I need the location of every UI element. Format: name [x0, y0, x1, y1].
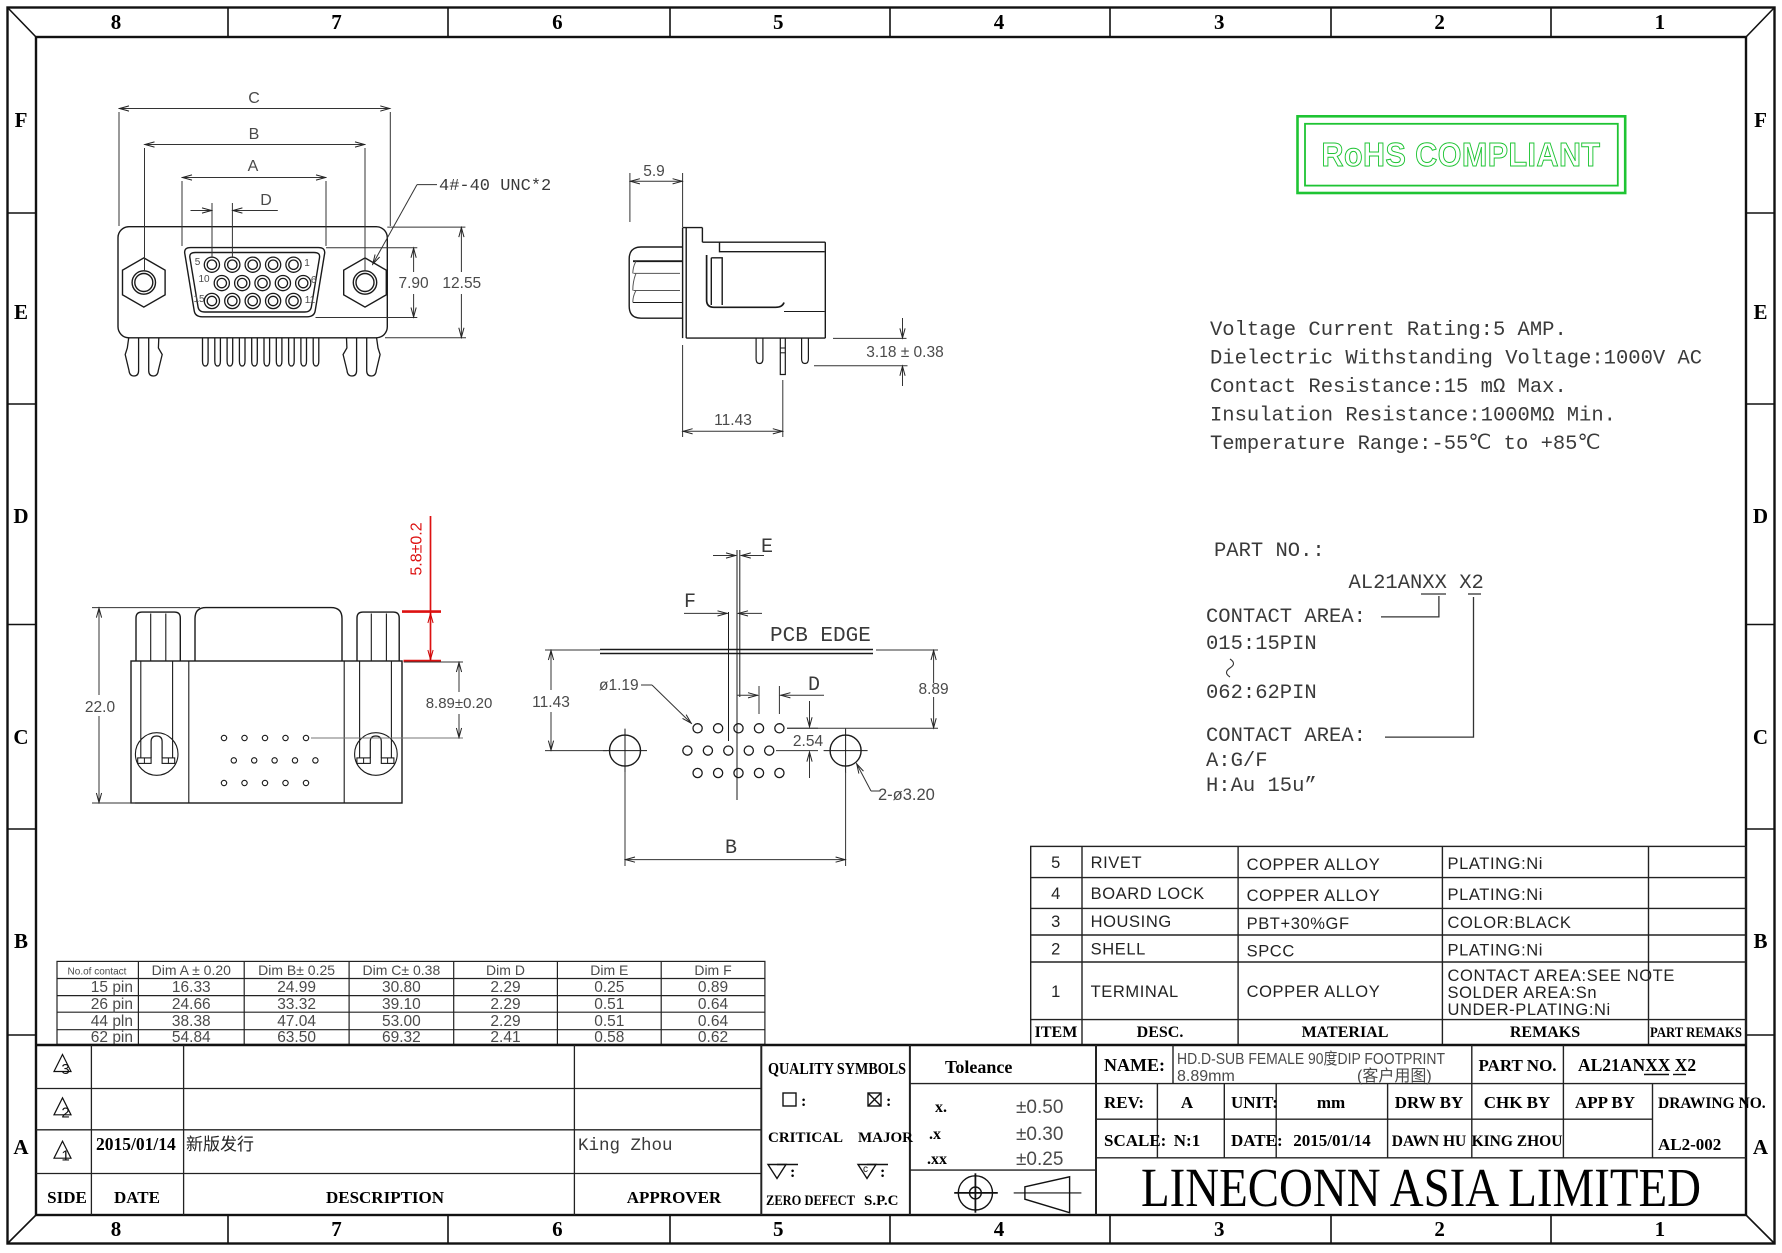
svg-text:Dielectric Withstanding Voltag: Dielectric Withstanding Voltage:1000V AC: [1210, 348, 1702, 371]
svg-text:0.89: 0.89: [698, 979, 728, 996]
svg-text:TERMINAL: TERMINAL: [1091, 983, 1179, 1001]
svg-text:MATERIAL: MATERIAL: [1302, 1024, 1389, 1041]
svg-text:53.00: 53.00: [382, 1013, 421, 1030]
svg-text:4: 4: [1051, 885, 1061, 903]
svg-text:CHK BY: CHK BY: [1484, 1093, 1551, 1112]
dimension C: [119, 109, 390, 227]
svg-text:F: F: [684, 591, 696, 614]
svg-text:RIVET: RIVET: [1091, 854, 1143, 872]
svg-text:A: A: [1753, 1135, 1769, 1159]
svg-text:5: 5: [773, 1217, 784, 1241]
svg-text:KING ZHOU: KING ZHOU: [1472, 1133, 1563, 1150]
svg-text:8.89mm: 8.89mm: [1177, 1068, 1235, 1085]
svg-text:SIDE: SIDE: [47, 1188, 87, 1207]
dimension 3.18 +/- 0.38: [814, 318, 908, 386]
svg-text:S.P.C: S.P.C: [864, 1193, 898, 1209]
right hex nut: [344, 258, 387, 307]
svg-text:10: 10: [198, 274, 210, 285]
svg-text:AL21ANXX X2: AL21ANXX X2: [1578, 1055, 1696, 1075]
svg-text:47.04: 47.04: [277, 1013, 316, 1030]
svg-text:3: 3: [1051, 913, 1061, 931]
svg-text:PLATING:Ni: PLATING:Ni: [1448, 942, 1544, 960]
svg-text:5.8±0.2: 5.8±0.2: [409, 522, 426, 575]
svg-text:7: 7: [331, 10, 342, 34]
leader dia 1.19: [641, 685, 692, 724]
svg-text:Dim B± 0.25: Dim B± 0.25: [258, 962, 335, 978]
svg-text:(客户用图): (客户用图): [1357, 1067, 1432, 1085]
svg-text:D: D: [13, 504, 28, 528]
svg-text:6: 6: [552, 10, 563, 34]
svg-text:3.18 ± 0.38: 3.18 ± 0.38: [866, 344, 943, 361]
svg-text:SOLDER AREA:Sn: SOLDER AREA:Sn: [1448, 984, 1598, 1002]
svg-text:39.10: 39.10: [382, 996, 421, 1013]
svg-text:PLATING:Ni: PLATING:Ni: [1448, 855, 1544, 873]
svg-text:A: A: [1181, 1093, 1194, 1112]
svg-text:CRITICAL: CRITICAL: [768, 1130, 843, 1146]
svg-text:BOARD LOCK: BOARD LOCK: [1091, 885, 1205, 903]
svg-text:Temperature Range:-55℃ to +85℃: Temperature Range:-55℃ to +85℃: [1210, 433, 1601, 456]
svg-text:2: 2: [61, 1104, 69, 1121]
svg-text:15: 15: [193, 294, 205, 305]
svg-text:54.84: 54.84: [172, 1029, 211, 1046]
svg-text:C: C: [13, 725, 28, 749]
rev / scale rows: [1104, 1093, 1766, 1154]
svg-text:RoHS COMPLIANT: RoHS COMPLIANT: [1322, 136, 1601, 173]
svg-text:MAJOR: MAJOR: [858, 1130, 913, 1146]
svg-text:D: D: [1753, 504, 1768, 528]
svg-text:Dim D: Dim D: [486, 962, 525, 978]
svg-text:3: 3: [1214, 10, 1225, 34]
svg-text:DATE:: DATE:: [1231, 1131, 1283, 1150]
svg-text:.x: .x: [929, 1126, 941, 1143]
dimension A: [182, 178, 326, 247]
svg-text:0.58: 0.58: [594, 1029, 624, 1046]
svg-text:2-ø3.20: 2-ø3.20: [878, 786, 935, 804]
dimension 22.0: [92, 608, 200, 803]
svg-text:11.43: 11.43: [532, 694, 570, 711]
svg-text:REMAKS: REMAKS: [1510, 1024, 1580, 1041]
svg-text:4: 4: [994, 10, 1005, 34]
svg-text:B: B: [725, 837, 737, 860]
body outline top view: [131, 661, 402, 803]
svg-text:6: 6: [552, 1217, 563, 1241]
dimension 2.54: [776, 701, 818, 778]
svg-text:5.9: 5.9: [643, 163, 665, 180]
svg-text:UNDER-PLATING:Ni: UNDER-PLATING:Ni: [1448, 1001, 1611, 1019]
svg-text:22.0: 22.0: [85, 699, 116, 716]
svg-text:8: 8: [111, 10, 122, 34]
svg-text:0.64: 0.64: [698, 996, 729, 1013]
right mounting hole: [830, 735, 861, 766]
svg-text:7.90: 7.90: [399, 275, 430, 292]
svg-text:E: E: [761, 536, 773, 559]
svg-text:H:Au 15u”: H:Au 15u”: [1206, 775, 1317, 798]
svg-text:DESC.: DESC.: [1137, 1024, 1184, 1041]
svg-text:2.29: 2.29: [490, 996, 520, 1013]
15 contacts front: [204, 257, 311, 309]
shell from top: [195, 608, 342, 661]
dimension F: [684, 612, 762, 614]
svg-text:24.66: 24.66: [172, 996, 211, 1013]
svg-text:DAWN HU: DAWN HU: [1392, 1133, 1467, 1150]
leader 2-dia 3.20: [857, 764, 881, 792]
svg-text:Dim F: Dim F: [694, 962, 731, 978]
flange plate: [682, 228, 684, 339]
svg-text:QUALITY SYMBOLS: QUALITY SYMBOLS: [768, 1059, 906, 1078]
svg-text:SHELL: SHELL: [1091, 941, 1146, 959]
svg-text:E: E: [14, 300, 28, 324]
svg-text:3: 3: [61, 1061, 69, 1078]
svg-text:DATE: DATE: [114, 1188, 160, 1207]
svg-text:0.64: 0.64: [698, 1013, 729, 1030]
svg-text:2: 2: [1434, 1217, 1445, 1241]
body outline: [702, 241, 825, 243]
svg-text:N:1: N:1: [1174, 1131, 1200, 1150]
svg-text:Toleance: Toleance: [945, 1057, 1012, 1077]
svg-text:Dim C± 0.38: Dim C± 0.38: [363, 962, 441, 978]
svg-text:E: E: [1753, 300, 1767, 324]
svg-text:0.62: 0.62: [698, 1029, 728, 1046]
svg-text:1: 1: [1655, 1217, 1666, 1241]
mating face (jack screw side): [629, 247, 682, 318]
svg-text:5: 5: [773, 10, 784, 34]
revision triangles: [54, 1055, 71, 1159]
pins: [756, 338, 763, 363]
svg-text:PLATING:Ni: PLATING:Ni: [1448, 886, 1544, 904]
svg-text:62 pin: 62 pin: [91, 1029, 133, 1046]
svg-text:0.51: 0.51: [594, 996, 624, 1013]
svg-text:PART REMAKS: PART REMAKS: [1650, 1025, 1742, 1041]
inner shell step: [720, 242, 825, 252]
svg-text:1: 1: [1655, 10, 1666, 34]
svg-text:AL21ANXX X2: AL21ANXX X2: [1349, 572, 1484, 595]
svg-text:REV:: REV:: [1104, 1093, 1144, 1112]
svg-text:F: F: [15, 108, 28, 132]
svg-text:062:62PIN: 062:62PIN: [1206, 682, 1317, 705]
svg-text:8.89±0.20: 8.89±0.20: [426, 695, 493, 712]
D-shell outer: [185, 248, 325, 317]
inner L-shaped housing line: [707, 255, 784, 307]
svg-text:2.41: 2.41: [490, 1029, 520, 1046]
svg-text:3: 3: [1214, 1217, 1225, 1241]
svg-text:38.38: 38.38: [172, 1013, 211, 1030]
right board lock pair: [343, 338, 357, 376]
svg-text::: :: [880, 1164, 885, 1181]
svg-text:6: 6: [311, 275, 317, 286]
svg-text:CONTACT AREA:SEE NOTE: CONTACT AREA:SEE NOTE: [1448, 967, 1675, 985]
dimension 8.89 (footprint): [787, 650, 938, 728]
svg-text:30.80: 30.80: [382, 979, 421, 996]
svg-text:ITEM: ITEM: [1035, 1024, 1078, 1041]
svg-text:DESCRIPTION: DESCRIPTION: [326, 1188, 445, 1207]
svg-text:CONTACT AREA:: CONTACT AREA:: [1206, 725, 1366, 748]
svg-text:8: 8: [111, 1217, 122, 1241]
F reference line: [728, 612, 730, 741]
third angle projection symbol: [954, 1173, 1081, 1212]
svg-text:44 pln: 44 pln: [91, 1013, 133, 1030]
svg-text:UNIT:: UNIT:: [1231, 1093, 1278, 1112]
svg-text:B: B: [14, 929, 28, 953]
svg-text:0.25: 0.25: [594, 979, 624, 996]
pin number labels: [193, 257, 316, 306]
svg-text:24.99: 24.99: [277, 979, 316, 996]
svg-text:AL2-002: AL2-002: [1658, 1135, 1721, 1154]
svg-text:ø1.19: ø1.19: [599, 677, 639, 694]
svg-text:No.of contact: No.of contact: [68, 967, 127, 978]
svg-text:SCALE:: SCALE:: [1104, 1131, 1166, 1150]
dimension 11.43: [683, 345, 783, 437]
svg-text:APPROVER: APPROVER: [627, 1188, 722, 1207]
PCB edge double line: [600, 649, 873, 651]
svg-text::: :: [801, 1093, 806, 1110]
svg-text:SPCC: SPCC: [1247, 943, 1295, 961]
svg-text:63.50: 63.50: [277, 1029, 316, 1046]
svg-text:HD.D-SUB FEMALE 90度DIP FOOTPRI: HD.D-SUB FEMALE 90度DIP FOOTPRINT: [1177, 1050, 1445, 1068]
svg-text:A:G/F: A:G/F: [1206, 750, 1268, 773]
dimension B (footprint): [625, 772, 846, 866]
svg-text:King Zhou: King Zhou: [578, 1136, 673, 1156]
svg-text:A: A: [248, 158, 259, 175]
svg-text:5: 5: [195, 257, 201, 268]
svg-text:2015/01/14: 2015/01/14: [96, 1134, 176, 1154]
svg-text:B: B: [1753, 929, 1767, 953]
right nut from top: [357, 612, 399, 661]
svg-text:8.89: 8.89: [919, 681, 949, 698]
svg-text:15 pin: 15 pin: [91, 979, 133, 996]
svg-text:Voltage Current Rating:5 AMP.: Voltage Current Rating:5 AMP.: [1210, 319, 1567, 342]
svg-text:ZERO DEFECT: ZERO DEFECT: [766, 1193, 855, 1209]
dimension 8.89+/-0.20: [311, 662, 463, 738]
svg-text:新版发行: 新版发行: [186, 1135, 254, 1154]
svg-text:1: 1: [1051, 983, 1061, 1001]
15 pin holes top view: [221, 735, 318, 785]
dimension 5.9: [630, 173, 683, 227]
board lock right (keyhole): [355, 733, 398, 776]
svg-text:12.55: 12.55: [442, 275, 481, 292]
svg-text:1: 1: [61, 1148, 69, 1165]
svg-text:mm: mm: [1317, 1093, 1345, 1112]
svg-text:x.: x.: [935, 1099, 947, 1116]
svg-text:D: D: [260, 192, 272, 209]
svg-text:1: 1: [304, 258, 310, 269]
svg-text:±0.30: ±0.30: [1016, 1124, 1063, 1145]
E reference line: [739, 550, 741, 697]
svg-text:LINECONN ASIA LIMITED: LINECONN ASIA LIMITED: [1141, 1157, 1701, 1218]
svg-text:2: 2: [1051, 941, 1061, 959]
svg-text:2.29: 2.29: [490, 1013, 520, 1030]
D-shell inner: [190, 253, 320, 313]
red dimension 5.8 +/- 0.2: [402, 516, 441, 661]
svg-text:11.43: 11.43: [714, 412, 752, 429]
svg-text:COPPER ALLOY: COPPER ALLOY: [1247, 983, 1381, 1001]
15 plated holes: [683, 724, 784, 778]
svg-text:PART NO.:: PART NO.:: [1214, 540, 1325, 563]
dimension 7.90: [316, 248, 418, 318]
board lock legs & pins below body: [125, 338, 380, 376]
svg-text:DRW BY: DRW BY: [1395, 1093, 1464, 1112]
svg-text:NAME:: NAME:: [1104, 1055, 1165, 1075]
svg-text:D: D: [808, 674, 820, 697]
centerline: [736, 550, 738, 800]
svg-text:2.54: 2.54: [793, 733, 824, 750]
dimension E: [713, 555, 764, 557]
svg-text:PART NO.: PART NO.: [1478, 1056, 1556, 1075]
svg-text:Dim E: Dim E: [590, 962, 628, 978]
svg-text:11: 11: [305, 295, 316, 306]
svg-text:015:15PIN: 015:15PIN: [1206, 633, 1317, 656]
svg-text:2015/01/14: 2015/01/14: [1293, 1131, 1371, 1150]
svg-text:HOUSING: HOUSING: [1091, 913, 1172, 931]
svg-text:16.33: 16.33: [172, 979, 211, 996]
svg-text:7: 7: [331, 1217, 342, 1241]
svg-text:PBT+30%GF: PBT+30%GF: [1247, 915, 1350, 933]
svg-text:5: 5: [1051, 854, 1061, 872]
svg-text:.xx: .xx: [927, 1151, 947, 1168]
svg-text:Contact Resistance:15 mΩ Max.: Contact Resistance:15 mΩ Max.: [1210, 376, 1567, 399]
svg-text:COPPER ALLOY: COPPER ALLOY: [1247, 887, 1381, 905]
svg-text:69.32: 69.32: [382, 1029, 421, 1046]
svg-text:DRAWING NO.: DRAWING NO.: [1658, 1095, 1766, 1112]
dimension B: [145, 145, 366, 272]
10 solder pins: [203, 338, 209, 366]
svg-text:COLOR:BLACK: COLOR:BLACK: [1448, 914, 1572, 932]
svg-text:COPPER ALLOY: COPPER ALLOY: [1247, 856, 1381, 874]
svg-text:Insulation Resistance:1000MΩ M: Insulation Resistance:1000MΩ Min.: [1210, 405, 1616, 428]
dimension 12.55: [385, 227, 466, 338]
terminal inside: [711, 258, 722, 305]
svg-text:PCB EDGE: PCB EDGE: [770, 625, 871, 648]
dimension D (pitch): [191, 203, 278, 258]
svg-text:Dim A ± 0.20: Dim A ± 0.20: [152, 962, 231, 978]
left mounting hole: [610, 735, 641, 766]
svg-text:F: F: [1754, 108, 1767, 132]
svg-text:2: 2: [1434, 10, 1445, 34]
svg-text:33.32: 33.32: [277, 996, 316, 1013]
svg-text:C: C: [1753, 725, 1768, 749]
svg-text:4: 4: [994, 1217, 1005, 1241]
dimension 11.43 (footprint): [545, 650, 607, 751]
svg-text::: :: [790, 1164, 795, 1181]
svg-text:A: A: [13, 1135, 29, 1159]
svg-text::: :: [886, 1093, 891, 1110]
svg-text:APP BY: APP BY: [1575, 1093, 1635, 1112]
svg-text:CONTACT AREA:: CONTACT AREA:: [1206, 606, 1366, 629]
board lock left (keyhole): [135, 733, 178, 776]
svg-text:c: c: [863, 1164, 868, 1175]
svg-text:C: C: [248, 90, 260, 107]
svg-text:0.51: 0.51: [594, 1013, 624, 1030]
label 4#-40 UNC*2 with leader: [373, 185, 438, 265]
dimension D (footprint): [737, 686, 824, 714]
svg-text:B: B: [249, 126, 260, 143]
left board lock pair: [125, 338, 138, 376]
svg-text:±0.50: ±0.50: [1016, 1097, 1063, 1118]
connector body front: [118, 227, 387, 338]
left nut from top: [136, 612, 180, 661]
column headers: [47, 1188, 722, 1207]
left hex nut: [123, 258, 166, 307]
svg-text:26 pin: 26 pin: [91, 996, 133, 1013]
svg-text:4#-40 UNC*2: 4#-40 UNC*2: [439, 177, 551, 196]
svg-text:±0.25: ±0.25: [1016, 1149, 1063, 1170]
svg-text:2.29: 2.29: [490, 979, 520, 996]
